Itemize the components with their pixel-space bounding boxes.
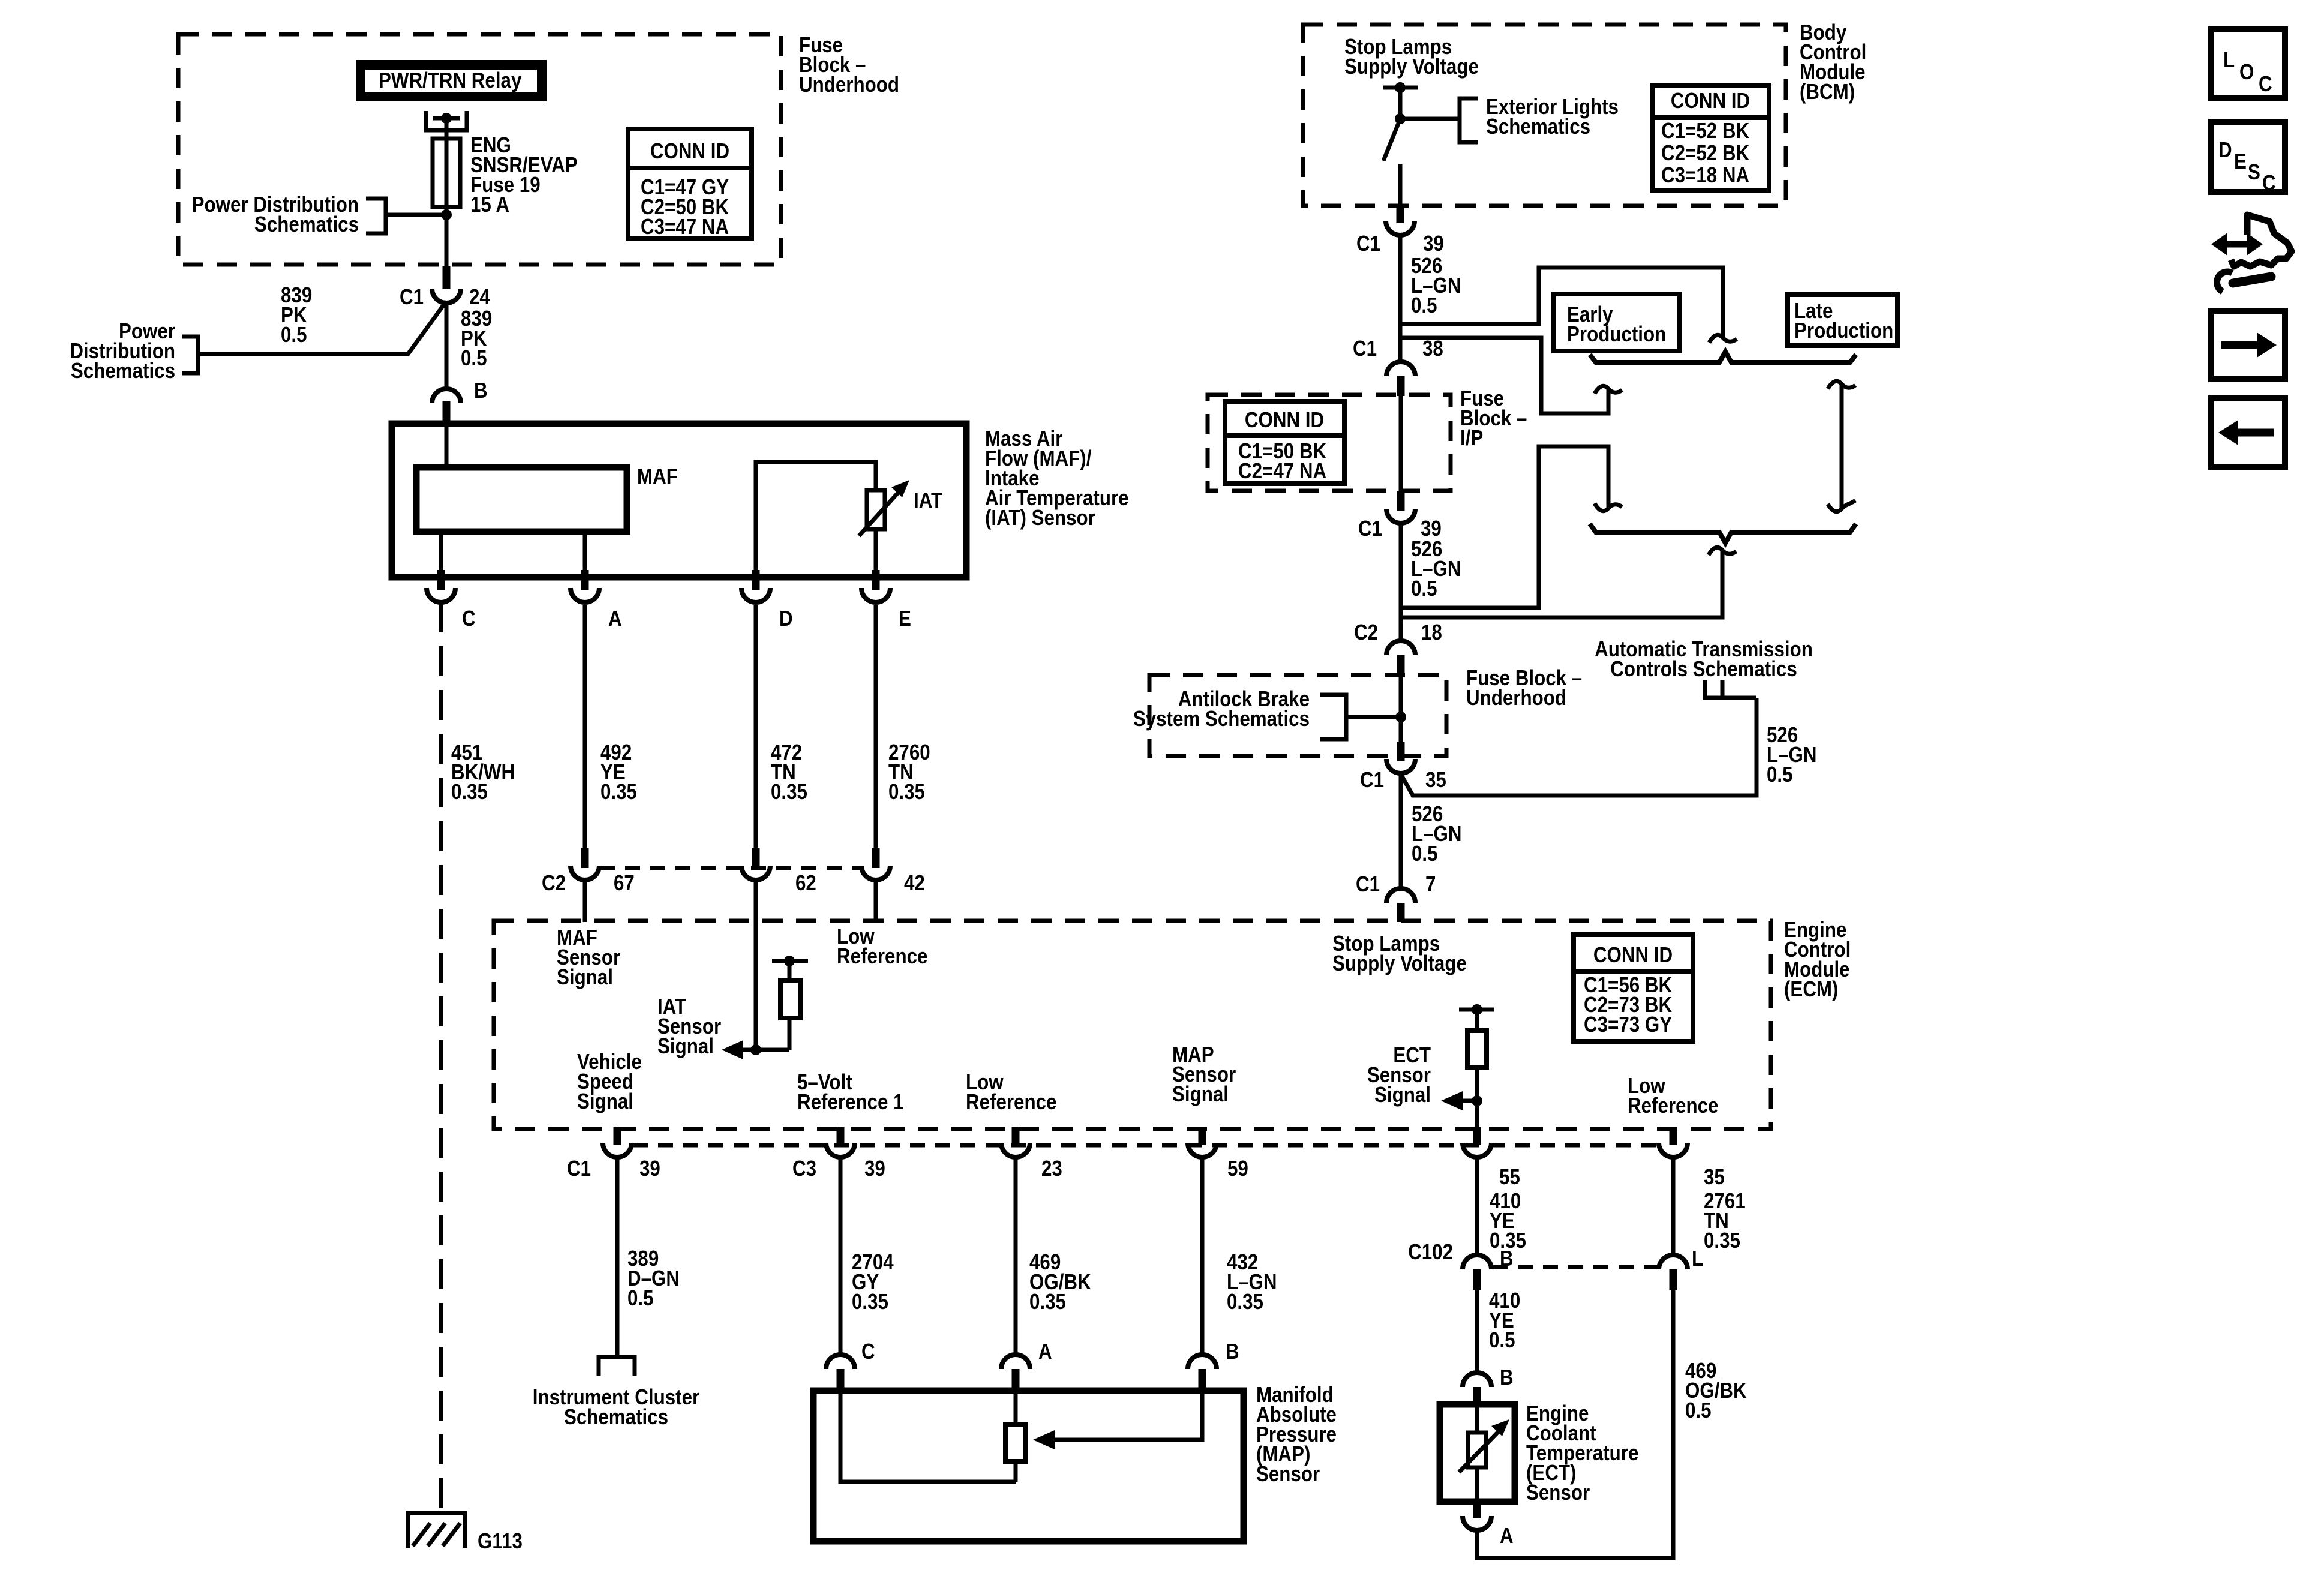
IAT pullup resistor bbox=[780, 980, 800, 1018]
svg-text:59: 59 bbox=[1227, 1157, 1248, 1181]
connector D stub+cup bbox=[752, 570, 760, 590]
wire 39 vehicle down bbox=[615, 1157, 620, 1357]
svg-text:E: E bbox=[899, 607, 911, 631]
relay pin dot bbox=[441, 113, 452, 124]
svg-text:L: L bbox=[2223, 48, 2235, 73]
MAP wiper arrowhead bbox=[1033, 1430, 1055, 1449]
wire relay pin to fuse bbox=[445, 118, 449, 139]
connector C3/39 stub+cup bbox=[837, 1127, 845, 1145]
svg-text:C1=52 BKC2=52 BKC3=18 NA: C1=52 BKC2=52 BKC3=18 NA bbox=[1661, 119, 1750, 188]
ECT signal junction dot bbox=[1472, 1095, 1482, 1106]
wire C3/39 down bbox=[839, 1157, 843, 1355]
connector ECT A stub+cup bbox=[1473, 1502, 1481, 1518]
connector 35 stub+cup bbox=[1670, 1127, 1677, 1145]
svg-text:39: 39 bbox=[639, 1157, 660, 1181]
switch blade bbox=[1383, 119, 1400, 161]
svg-text:C: C bbox=[2259, 72, 2272, 97]
bracket antilock bbox=[1320, 695, 1346, 739]
dashed wire 451 to G113 bbox=[439, 602, 443, 1513]
wire 59 down bbox=[1200, 1157, 1205, 1355]
svg-text:C1: C1 bbox=[1358, 517, 1382, 541]
wire BCM 39 down to C1/38 bbox=[1398, 235, 1403, 362]
svg-text:24: 24 bbox=[469, 285, 490, 310]
junction dot antilock bbox=[1395, 712, 1406, 722]
conn id table ECM bbox=[1574, 935, 1693, 1041]
ECM bottom row dashed line bbox=[633, 1143, 1658, 1148]
diagonal wire to power distribution 2 bbox=[200, 301, 446, 354]
svg-text:C1: C1 bbox=[1353, 337, 1377, 361]
svg-text:D: D bbox=[2218, 138, 2232, 163]
C2 row dashed line bbox=[600, 866, 860, 870]
wire switch lower to BCM edge bbox=[1398, 164, 1403, 207]
Fuse Block IP dashed box bbox=[1208, 395, 1451, 491]
ECT pullup dot bbox=[1472, 1004, 1482, 1015]
wire IAT to pin E bbox=[874, 529, 878, 572]
wire antilock to junction bbox=[1346, 715, 1401, 719]
svg-text:C2: C2 bbox=[542, 871, 566, 896]
connector C102 B dome+stub bbox=[1463, 1255, 1491, 1269]
ECM dashed box bbox=[494, 921, 1771, 1129]
wire MAF to pin A bbox=[583, 532, 587, 572]
svg-text:G113: G113 bbox=[478, 1529, 523, 1554]
MAF element rect bbox=[416, 467, 627, 532]
svg-text:39: 39 bbox=[1423, 232, 1444, 256]
connector C stub+cup bbox=[437, 570, 445, 590]
wire resistor to IAT junction bbox=[788, 1018, 792, 1050]
ECT pullup resistor bbox=[1467, 1031, 1487, 1067]
IAT thermistor arrow bbox=[859, 491, 900, 536]
fuse ENG SNSR/EVAP Fuse 19 bbox=[433, 139, 460, 207]
svg-text:O: O bbox=[2239, 60, 2254, 85]
connector 55 stub+cup bbox=[1473, 1127, 1481, 1145]
bracket instrument cluster bbox=[599, 1357, 635, 1376]
ECT pullup bar bbox=[1459, 1008, 1494, 1012]
connector C1/7 dome+stub bbox=[1386, 888, 1415, 903]
MAP sensor box bbox=[813, 1391, 1244, 1541]
svg-text:D: D bbox=[779, 607, 793, 631]
ECT signal horizontal wire bbox=[1460, 1099, 1477, 1103]
wire inside IP box bbox=[1399, 396, 1403, 491]
svg-text:Automatic TransmissionControls: Automatic TransmissionControls Schematic… bbox=[1595, 637, 1813, 682]
svg-text:C1: C1 bbox=[400, 285, 424, 310]
svg-text:C: C bbox=[462, 607, 476, 631]
bracket power distribution schematics 1 bbox=[366, 199, 386, 233]
ECT signal arrowhead bbox=[1441, 1091, 1463, 1110]
svg-text:B: B bbox=[1500, 1247, 1514, 1271]
IAT subcircuit top bar bbox=[756, 462, 876, 572]
MAP resistor bottom leg bbox=[1014, 1461, 1018, 1482]
top brace bbox=[1590, 352, 1856, 362]
connector C1/24 cup bbox=[432, 289, 461, 303]
MAP potentiometer resistor bbox=[1005, 1424, 1026, 1461]
IAT signal arrowhead bbox=[722, 1040, 743, 1059]
BCM dashed box bbox=[1303, 25, 1786, 206]
svg-text:C1: C1 bbox=[1356, 872, 1380, 897]
ECT thermistor arrow bbox=[1459, 1428, 1502, 1472]
svg-text:C: C bbox=[2262, 171, 2276, 196]
svg-text:CONN ID: CONN ID bbox=[1671, 89, 1750, 113]
wire 67 into ECM bbox=[583, 880, 587, 922]
wire resistor to ECT junction bbox=[1475, 1067, 1479, 1127]
wire ATC to C1/35 bbox=[1401, 698, 1756, 795]
wire ip39 down to corner and C2/18 bbox=[1399, 523, 1403, 642]
ECT sensor box bbox=[1440, 1404, 1515, 1502]
svg-text:B: B bbox=[1226, 1340, 1239, 1364]
svg-text:38: 38 bbox=[1422, 337, 1443, 361]
bracket automatic transmission bbox=[1705, 680, 1756, 698]
svg-text:A: A bbox=[1500, 1524, 1514, 1548]
svg-text:Fuse Block –Underhood: Fuse Block –Underhood bbox=[1466, 666, 1582, 710]
connector C1/35 stub+cup bbox=[1397, 742, 1405, 761]
wire fuse to box bottom bbox=[445, 207, 449, 266]
wire ECT element to box bottom bbox=[1475, 1467, 1479, 1502]
IAT pullup dot bbox=[784, 956, 795, 966]
icon box left arrow bbox=[2211, 398, 2285, 467]
svg-text:B: B bbox=[474, 379, 488, 403]
svg-text:CONN ID: CONN ID bbox=[1245, 408, 1324, 433]
wire MAF to pin C bbox=[439, 532, 443, 572]
Fuse Block Underhood 2 dashed box bbox=[1149, 675, 1446, 756]
connector B stub bbox=[443, 401, 451, 425]
harness break curl early lower start bbox=[1595, 503, 1622, 511]
wire to power distribution bracket bbox=[388, 213, 446, 217]
svg-text:C1=50 BKC2=47 NA: C1=50 BKC2=47 NA bbox=[1238, 439, 1327, 484]
wire D to 62 bbox=[754, 605, 758, 849]
connector C2/18 dome+stub bbox=[1386, 641, 1415, 655]
wire C1/35 down to C1/7 bbox=[1399, 773, 1403, 888]
svg-text:E: E bbox=[2234, 149, 2247, 174]
ECT thermistor rect bbox=[1468, 1433, 1486, 1467]
wire supply to branch bbox=[1398, 88, 1403, 119]
wire B into MAF element bbox=[445, 424, 449, 467]
connector A dome+stub bbox=[1001, 1355, 1030, 1369]
connector 62 stub+cup bbox=[752, 848, 760, 868]
fuse block underhood dashed box bbox=[178, 34, 781, 265]
IAT pullup stem bbox=[788, 961, 792, 980]
wire 62 into ECM down to IAT junction bbox=[754, 880, 758, 1050]
svg-text:B: B bbox=[1500, 1365, 1514, 1390]
svg-text:A: A bbox=[1038, 1340, 1052, 1364]
svg-text:CONN ID: CONN ID bbox=[1593, 943, 1673, 968]
connector 23 stub+cup bbox=[1012, 1127, 1020, 1145]
svg-text:PWR/TRN Relay: PWR/TRN Relay bbox=[379, 68, 522, 93]
late production vertical segment bbox=[1840, 384, 1844, 509]
ECT pullup stem bbox=[1475, 1010, 1479, 1031]
connector E stub+cup bbox=[872, 570, 880, 590]
BCM supply dot bbox=[1395, 82, 1406, 93]
junction dot power distribution tap bbox=[441, 209, 452, 220]
svg-text:L: L bbox=[1692, 1247, 1703, 1271]
svg-text:62: 62 bbox=[795, 871, 816, 896]
wire C1/24 down to B bbox=[445, 301, 449, 387]
connector B dome bbox=[432, 389, 461, 403]
IAT pullup bar bbox=[772, 959, 808, 963]
svg-text:67: 67 bbox=[614, 871, 635, 896]
wire inside underhood2 bbox=[1399, 676, 1403, 756]
connector ECT B dome+stub bbox=[1463, 1373, 1491, 1387]
svg-text:CONN ID: CONN ID bbox=[650, 139, 729, 164]
connector C102 L dome+stub bbox=[1659, 1255, 1688, 1269]
MAP internal wire A leg bbox=[1014, 1391, 1018, 1424]
IAT signal junction dot bbox=[750, 1044, 761, 1055]
icon box LOC bbox=[2211, 29, 2285, 98]
wire 42 into ECM bbox=[874, 880, 878, 922]
connector C dome+stub bbox=[826, 1355, 855, 1369]
connector 42 stub+cup bbox=[872, 848, 880, 868]
svg-text:C1=56 BKC2=73 BKC3=73 GY: C1=56 BKC2=73 BKC3=73 GY bbox=[1584, 973, 1673, 1037]
svg-text:C1: C1 bbox=[1360, 768, 1384, 792]
conn id table BCM bbox=[1652, 85, 1769, 191]
connector B dome+stub bbox=[1188, 1355, 1217, 1369]
svg-text:55: 55 bbox=[1499, 1165, 1520, 1190]
relay contact cup bracket bbox=[426, 111, 467, 130]
bracket exterior lights bbox=[1460, 98, 1478, 142]
MAF sensor outer box bbox=[392, 424, 966, 577]
late production segment bottom curl bbox=[1828, 500, 1855, 512]
svg-text:23: 23 bbox=[1041, 1157, 1062, 1181]
branch wire late production upper bbox=[1400, 268, 1723, 338]
svg-text:C2: C2 bbox=[1354, 620, 1378, 645]
bracket power distribution schematics 2 bbox=[182, 337, 198, 373]
IAT thermistor rect bbox=[867, 490, 885, 529]
svg-text:MAF: MAF bbox=[637, 464, 678, 489]
Early Production label box bbox=[1554, 294, 1680, 351]
connector 59 stub+cup bbox=[1199, 1127, 1206, 1145]
wire A to 67 bbox=[583, 605, 587, 849]
wire into ECT element bbox=[1475, 1404, 1479, 1433]
BCM supply bar bbox=[1383, 86, 1418, 90]
C102 row dashed line bbox=[1493, 1265, 1658, 1269]
relay pin T-bar bbox=[433, 116, 460, 121]
wire E to 42 bbox=[874, 605, 878, 849]
connector C1/24 stub bbox=[443, 266, 451, 289]
svg-text:C1: C1 bbox=[1356, 232, 1380, 256]
connector C1/39 bcm stub+cup bbox=[1397, 207, 1404, 223]
wire branch to exterior lights bracket bbox=[1400, 117, 1458, 121]
Late Production label box bbox=[1788, 295, 1897, 346]
ground symbol G113 bbox=[408, 1513, 465, 1548]
conn id table IP bbox=[1225, 401, 1344, 484]
late production segment top curl bbox=[1828, 381, 1855, 389]
svg-text:35: 35 bbox=[1704, 1165, 1725, 1190]
conn id table top-left bbox=[628, 129, 752, 239]
svg-text:VehicleSpeedSignal: VehicleSpeedSignal bbox=[577, 1050, 642, 1114]
wire 35 down to C102 L bbox=[1671, 1157, 1676, 1255]
harness break curl below bottom brace bbox=[1709, 547, 1736, 555]
IAT signal horizontal wire bbox=[740, 1048, 789, 1052]
connector C1/38 dome+stub bbox=[1386, 362, 1415, 376]
icon hotlink arrows and wrench bbox=[2211, 215, 2292, 292]
relay label box PWR/TRN Relay bbox=[361, 65, 542, 97]
wire 23 down bbox=[1014, 1157, 1018, 1355]
wire early production lower bbox=[1401, 446, 1608, 608]
connector 67 stub+cup bbox=[581, 848, 589, 868]
svg-text:C102: C102 bbox=[1408, 1240, 1453, 1265]
svg-text:A: A bbox=[608, 607, 622, 631]
harness break curl early upper bbox=[1595, 386, 1622, 394]
wire B down to ECT B bbox=[1475, 1290, 1479, 1373]
MAP wiper wire from B bbox=[1055, 1391, 1202, 1440]
connector A stub+cup bbox=[581, 570, 589, 590]
svg-text:IAT: IAT bbox=[914, 488, 942, 513]
svg-text:39: 39 bbox=[864, 1157, 885, 1181]
connector C1/39 ip stub+cup bbox=[1397, 491, 1405, 511]
wire 55 down to C102 B bbox=[1475, 1157, 1479, 1255]
harness break curl late upper bbox=[1709, 335, 1737, 343]
bottom brace bbox=[1590, 524, 1856, 543]
svg-text:42: 42 bbox=[904, 871, 925, 896]
svg-text:7: 7 bbox=[1425, 872, 1436, 897]
wire from bottom brace curl to C2/18 line bbox=[1401, 550, 1722, 617]
svg-text:C: C bbox=[861, 1340, 875, 1364]
icon box right arrow bbox=[2211, 311, 2285, 379]
svg-text:C1: C1 bbox=[567, 1157, 591, 1181]
icon box DESC bbox=[2211, 122, 2285, 196]
svg-text:C1=47 GYC2=50 BKC3=47 NA: C1=47 GYC2=50 BKC3=47 NA bbox=[641, 175, 729, 239]
svg-text:C3: C3 bbox=[792, 1157, 816, 1181]
connector C1/39 vehicle stub+cup bbox=[614, 1127, 621, 1145]
svg-text:35: 35 bbox=[1425, 768, 1446, 792]
svg-text:S: S bbox=[2248, 160, 2260, 185]
MAP internal wire C leg bbox=[840, 1391, 1016, 1482]
wire ECT A to 469 riser bbox=[1477, 1290, 1673, 1558]
branch junction dot bbox=[1395, 113, 1406, 124]
svg-text:18: 18 bbox=[1421, 620, 1442, 645]
branch wire early production upper bbox=[1400, 338, 1608, 413]
